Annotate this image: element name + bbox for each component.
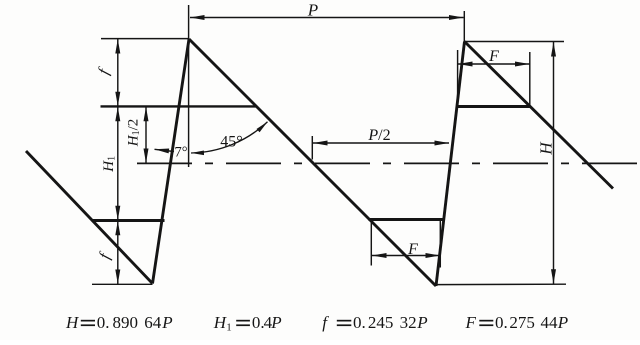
svg-text:f: f: [96, 249, 114, 261]
svg-text:64: 64: [144, 313, 162, 332]
svg-text:P: P: [416, 313, 427, 332]
svg-text:275: 275: [509, 313, 535, 332]
svg-text:P: P: [557, 313, 568, 332]
svg-text:1: 1: [226, 322, 232, 334]
svg-text:F: F: [488, 48, 499, 65]
svg-text:7°: 7°: [174, 144, 187, 160]
svg-text:32: 32: [400, 313, 417, 332]
svg-text:F: F: [465, 313, 477, 332]
svg-text:0.: 0.: [97, 313, 110, 332]
svg-text:f: f: [95, 65, 113, 77]
svg-text:44: 44: [541, 313, 559, 332]
svg-text:45°: 45°: [220, 133, 242, 150]
svg-text:890: 890: [113, 313, 139, 332]
svg-text:P: P: [307, 1, 318, 20]
svg-text:0.: 0.: [495, 313, 508, 332]
svg-text:H: H: [536, 141, 555, 156]
svg-text:245: 245: [368, 313, 394, 332]
svg-text:H: H: [65, 313, 80, 332]
svg-text:P: P: [270, 313, 281, 332]
svg-text:f: f: [322, 313, 329, 332]
svg-text:P: P: [161, 313, 172, 332]
svg-text:H1/2: H1/2: [126, 119, 142, 148]
svg-text:0.: 0.: [353, 313, 366, 332]
svg-text:P/2: P/2: [367, 127, 390, 144]
svg-text:H1: H1: [101, 156, 117, 173]
svg-text:F: F: [407, 241, 418, 258]
